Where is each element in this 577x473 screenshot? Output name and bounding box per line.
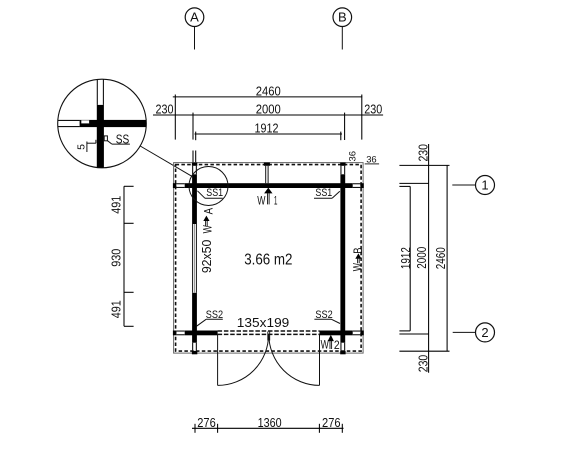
- svg-text:1912: 1912: [255, 121, 279, 136]
- svg-text:W: W: [351, 263, 365, 272]
- svg-text:276: 276: [322, 415, 341, 430]
- svg-text:1912: 1912: [398, 247, 413, 269]
- svg-text:230: 230: [416, 355, 431, 373]
- svg-text:230: 230: [364, 102, 382, 117]
- svg-text:1: 1: [481, 178, 488, 193]
- svg-text:B: B: [351, 247, 365, 253]
- svg-text:2: 2: [334, 338, 340, 352]
- svg-text:2: 2: [481, 325, 488, 340]
- svg-text:2460: 2460: [433, 247, 448, 269]
- svg-text:491: 491: [109, 196, 123, 214]
- svg-text:1: 1: [274, 194, 278, 208]
- svg-text:A: A: [190, 10, 199, 25]
- svg-text:W: W: [321, 338, 330, 352]
- svg-text:1360: 1360: [258, 415, 282, 430]
- svg-text:92x50: 92x50: [200, 240, 214, 274]
- svg-text:36: 36: [347, 151, 358, 162]
- svg-text:5: 5: [76, 144, 88, 150]
- svg-text:2000: 2000: [414, 247, 429, 269]
- svg-text:276: 276: [197, 415, 216, 430]
- svg-text:W: W: [201, 225, 215, 234]
- svg-text:491: 491: [109, 300, 123, 318]
- svg-text:3.66 m2: 3.66 m2: [244, 251, 292, 268]
- svg-text:A: A: [202, 208, 216, 215]
- svg-text:135x199: 135x199: [237, 316, 290, 330]
- svg-text:930: 930: [109, 249, 123, 267]
- svg-text:SS1: SS1: [206, 187, 223, 199]
- svg-text:W: W: [257, 194, 266, 208]
- svg-text:SS1: SS1: [315, 187, 332, 199]
- svg-text:B: B: [338, 10, 347, 25]
- svg-text:230: 230: [156, 102, 174, 117]
- svg-text:230: 230: [416, 144, 431, 162]
- svg-text:2000: 2000: [256, 102, 281, 117]
- svg-text:2460: 2460: [256, 84, 281, 99]
